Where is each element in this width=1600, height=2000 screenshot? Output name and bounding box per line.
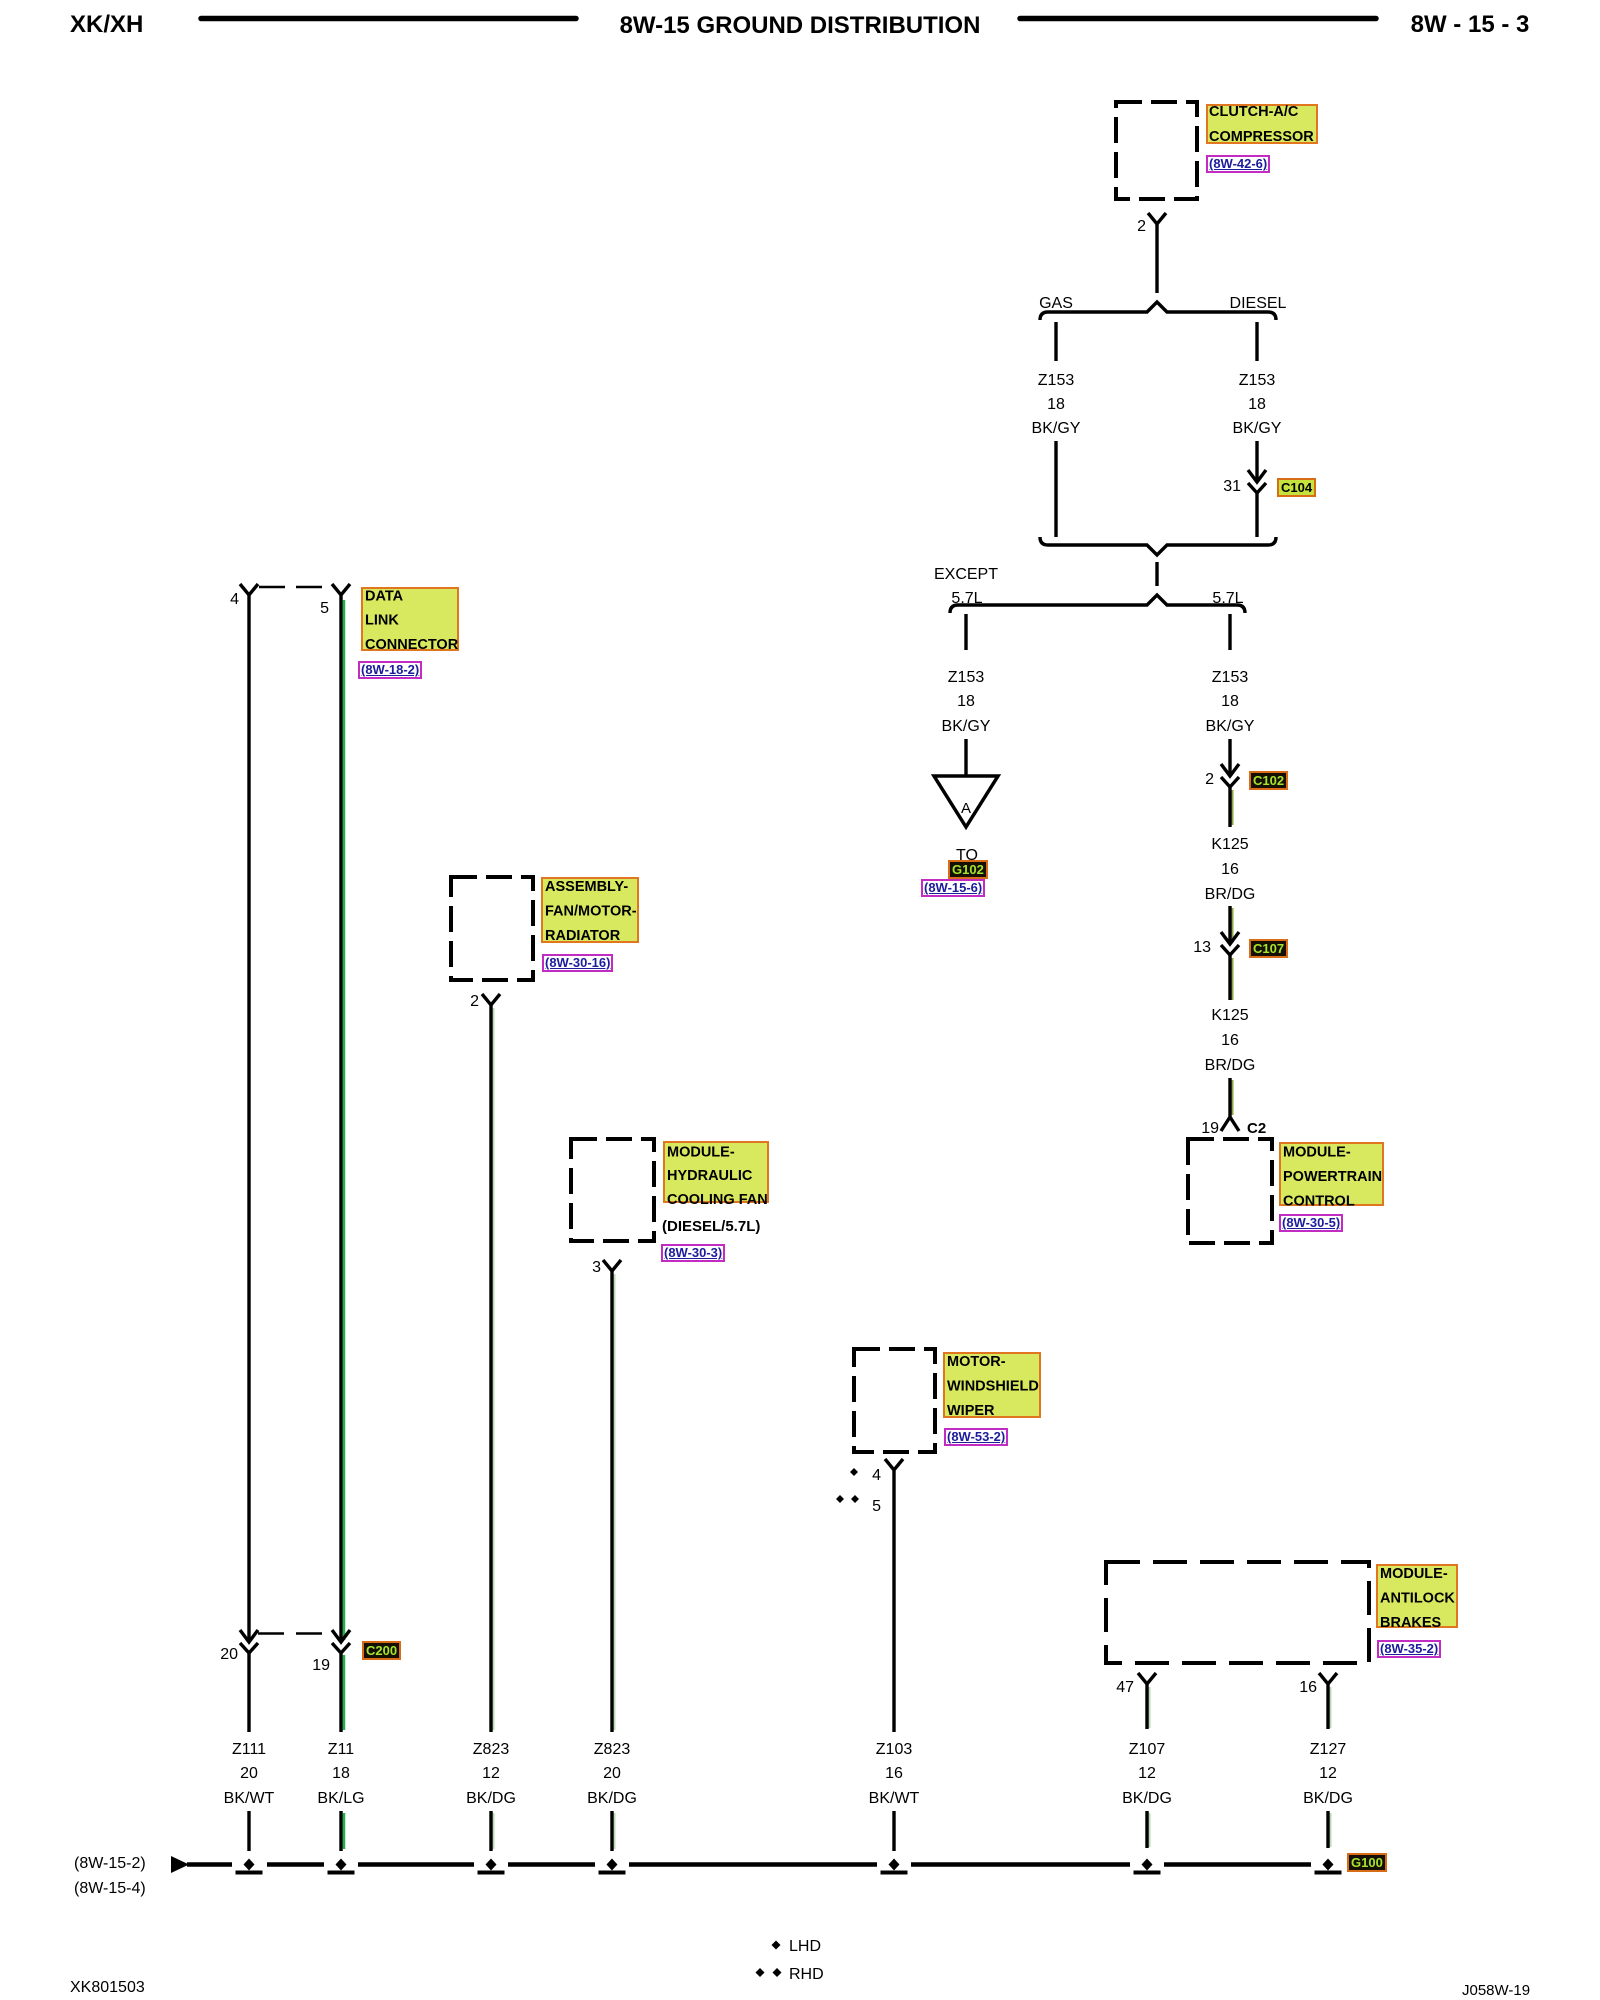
connector C200 pin 20 inline symbol xyxy=(240,1630,258,1642)
wire Z823 12 BK/DG from fan assembly xyxy=(493,1008,495,1730)
svg-text:Z153: Z153 xyxy=(1038,372,1075,389)
svg-text:RHD: RHD xyxy=(789,1966,824,1983)
svg-text:8W - 15 - 3: 8W - 15 - 3 xyxy=(1411,11,1530,38)
svg-text:GAS: GAS xyxy=(1039,295,1073,312)
reference link 8W-30-5 xyxy=(1279,1214,1343,1232)
svg-text:18: 18 xyxy=(1047,396,1065,413)
svg-text:WINDSHIELD: WINDSHIELD xyxy=(947,1379,1039,1395)
svg-text:XK/XH: XK/XH xyxy=(70,11,143,38)
svg-text:(8W-15-2): (8W-15-2) xyxy=(74,1855,146,1872)
note DIESEL/5.7L xyxy=(662,1218,760,1235)
component label DATA LINK CONNECTOR xyxy=(362,588,459,653)
svg-text:16: 16 xyxy=(1221,861,1239,878)
svg-text:LINK: LINK xyxy=(365,613,399,629)
wiper pin 4 (LHD) marker xyxy=(850,1468,858,1476)
svg-text:COOLING FAN: COOLING FAN xyxy=(667,1192,768,1208)
svg-text:POWERTRAIN: POWERTRAIN xyxy=(1283,1169,1382,1185)
svg-text:3: 3 xyxy=(592,1259,601,1276)
svg-text:BRAKES: BRAKES xyxy=(1380,1615,1442,1631)
wire Z111 from DLC pin 4 xyxy=(247,595,250,1642)
header rule right xyxy=(1020,16,1376,22)
svg-text:Z153: Z153 xyxy=(1212,669,1249,686)
svg-text:Z823: Z823 xyxy=(473,1741,510,1758)
svg-text:CONNECTOR: CONNECTOR xyxy=(365,637,459,653)
svg-text:BR/DG: BR/DG xyxy=(1205,886,1256,903)
svg-text:DATA: DATA xyxy=(365,589,404,605)
svg-text:BK/LG: BK/LG xyxy=(317,1790,364,1807)
reference link 8W-18-2 xyxy=(358,661,422,679)
svg-text:BK/GY: BK/GY xyxy=(1233,420,1282,437)
wiper pin 4 Y xyxy=(885,1459,903,1470)
splice junction Z11 to G100 xyxy=(336,1859,347,1871)
svg-text:18: 18 xyxy=(1248,396,1266,413)
svg-text:BK/DG: BK/DG xyxy=(1122,1790,1172,1807)
connector C104 pin 31 inline symbol xyxy=(1248,470,1266,482)
reference link 8W-30-3 xyxy=(661,1244,725,1262)
svg-text:18: 18 xyxy=(957,693,975,710)
connector label C102 xyxy=(1249,771,1288,790)
svg-text:20: 20 xyxy=(220,1646,238,1663)
svg-text:Z153: Z153 xyxy=(1239,372,1276,389)
svg-text:2: 2 xyxy=(1205,771,1214,788)
svg-text:XK801503: XK801503 xyxy=(70,1979,145,1996)
svg-text:MODULE-: MODULE- xyxy=(1380,1566,1448,1582)
svg-text:16: 16 xyxy=(1221,1032,1239,1049)
svg-text:2: 2 xyxy=(1137,218,1146,235)
wire K125 16 BR/DG below C107 xyxy=(1232,958,1234,1000)
svg-text:BK/WT: BK/WT xyxy=(224,1790,275,1807)
svg-text:K125: K125 xyxy=(1211,1007,1248,1024)
svg-text:18: 18 xyxy=(332,1765,350,1782)
svg-text:BR/DG: BR/DG xyxy=(1205,1057,1256,1074)
svg-text:12: 12 xyxy=(1138,1765,1156,1782)
svg-text:Z153: Z153 xyxy=(948,669,985,686)
fan assembly pin 2 Y xyxy=(482,994,500,1005)
wire Z153 18 BK/GY 5.7L branch xyxy=(1228,614,1231,650)
dashed link between C200 pins xyxy=(258,1632,332,1635)
component label CLUTCH-A/C COMPRESSOR xyxy=(1207,104,1317,145)
svg-text:47: 47 xyxy=(1116,1679,1134,1696)
wire below C104 xyxy=(1255,493,1258,537)
reference link 8W-30-16 xyxy=(542,954,613,972)
svg-text:MOTOR-: MOTOR- xyxy=(947,1354,1006,1370)
wiper pin 5 (RHD) markers xyxy=(836,1495,844,1503)
svg-text:MODULE-: MODULE- xyxy=(667,1145,735,1161)
svg-text:DIESEL: DIESEL xyxy=(1230,295,1287,312)
svg-text:K125: K125 xyxy=(1211,836,1248,853)
header rule left xyxy=(201,16,576,22)
connector C200 pin 19 inline symbol xyxy=(332,1630,350,1642)
svg-text:5.7L: 5.7L xyxy=(951,590,982,607)
data link connector pin 5 Y xyxy=(332,584,350,595)
ABS pin 16 Y xyxy=(1319,1673,1337,1684)
svg-text:16: 16 xyxy=(1299,1679,1317,1696)
wire Z153 from clutch pin 2 xyxy=(1155,224,1158,293)
svg-text:FAN/MOTOR-: FAN/MOTOR- xyxy=(545,904,637,920)
wire Z107 12 BK/DG from ABS pin 47 xyxy=(1149,1687,1151,1728)
svg-text:Z11: Z11 xyxy=(328,1741,354,1758)
svg-text:5: 5 xyxy=(872,1498,881,1515)
ground label G100 xyxy=(1347,1853,1387,1872)
svg-text:CONTROL: CONTROL xyxy=(1283,1194,1355,1210)
splice split GAS/DIESEL xyxy=(1040,302,1276,320)
pin 2 connector Y at clutch xyxy=(1148,213,1166,224)
svg-text:BK/DG: BK/DG xyxy=(1303,1790,1353,1807)
wire Z153 18 BK/GY diesel branch xyxy=(1255,322,1258,361)
component label MODULE-HYDRAULIC COOLING FAN xyxy=(664,1142,768,1208)
svg-text:BK/GY: BK/GY xyxy=(942,718,991,735)
wire Z127 12 BK/DG from ABS pin 16 xyxy=(1330,1687,1332,1728)
wire Z103 16 BK/WT from wiper motor xyxy=(892,1470,895,1732)
dashed link between DLC pins xyxy=(259,586,322,589)
data link connector pin 4 Y xyxy=(240,584,258,595)
svg-text:Z823: Z823 xyxy=(594,1741,631,1758)
svg-text:2: 2 xyxy=(470,993,479,1010)
svg-text:12: 12 xyxy=(1319,1765,1337,1782)
component label ASSEMBLY-FAN/MOTOR-RADIATOR xyxy=(542,878,638,944)
svg-text:16: 16 xyxy=(885,1765,903,1782)
component label MODULE-ANTILOCK BRAKES xyxy=(1377,1565,1457,1631)
connector label C104 xyxy=(1277,478,1316,497)
svg-text:Z127: Z127 xyxy=(1310,1741,1347,1758)
ground bus G100 wire segments xyxy=(187,1862,232,1867)
reference link 8W-15-6 xyxy=(921,879,985,897)
wire Z1 BK/LG from DLC pin 5 xyxy=(343,600,346,1640)
hydraulic cooling fan module box xyxy=(571,1139,654,1241)
svg-text:20: 20 xyxy=(603,1765,621,1782)
wire Z111 20 BK/WT below C200 xyxy=(247,1653,250,1732)
ABS pin 47 Y xyxy=(1138,1673,1156,1684)
ground bus arrow xyxy=(171,1856,189,1873)
wire Z823 20 BK/DG from hydraulic fan module xyxy=(614,1274,616,1730)
connector label C107 xyxy=(1249,939,1288,958)
connector C102 pin 2 inline symbol xyxy=(1221,764,1239,776)
svg-text:ASSEMBLY-: ASSEMBLY- xyxy=(545,879,628,895)
splice junction Z127 to G100 ground xyxy=(1323,1859,1334,1871)
svg-text:BK/DG: BK/DG xyxy=(466,1790,516,1807)
reference link 8W-42-6 xyxy=(1206,155,1270,173)
svg-text:CLUTCH-A/C: CLUTCH-A/C xyxy=(1209,104,1299,120)
clutch A/C compressor component box xyxy=(1116,102,1197,199)
svg-text:WIPER: WIPER xyxy=(947,1403,995,1419)
svg-text:MODULE-: MODULE- xyxy=(1283,1145,1351,1161)
svg-text:COMPRESSOR: COMPRESSOR xyxy=(1209,129,1314,145)
wire Z11 18 BK/LG below C200 xyxy=(343,1655,346,1730)
splice junction Z823-12 to G100 xyxy=(486,1859,497,1871)
svg-text:HYDRAULIC: HYDRAULIC xyxy=(667,1168,753,1184)
wire Z153 18 BK/GY except-5.7L branch xyxy=(964,614,967,650)
svg-text:A: A xyxy=(961,800,971,817)
reference link 8W-53-2 xyxy=(944,1428,1008,1446)
splice merge of gas/diesel branches xyxy=(1040,537,1276,555)
svg-text:31: 31 xyxy=(1223,478,1241,495)
component label MOTOR-WINDSHIELD WIPER xyxy=(944,1353,1040,1419)
svg-text:Z111: Z111 xyxy=(232,1741,266,1758)
svg-text:19: 19 xyxy=(312,1657,330,1674)
wire Z153 18 BK/GY gas branch xyxy=(1054,322,1057,361)
svg-text:4: 4 xyxy=(872,1467,881,1484)
svg-text:Z107: Z107 xyxy=(1129,1741,1166,1758)
connector label C2 xyxy=(1247,1120,1266,1137)
component label MODULE-POWERTRAIN CONTROL xyxy=(1280,1143,1383,1210)
splice junction Z111 to G100 xyxy=(244,1859,255,1871)
connector label C200 xyxy=(362,1641,401,1660)
svg-text:19: 19 xyxy=(1201,1120,1219,1137)
svg-text:BK/DG: BK/DG xyxy=(587,1790,637,1807)
splice junction Z107 to G100 xyxy=(1142,1859,1153,1871)
wire K125 16 BR/DG below C102 xyxy=(1232,790,1234,825)
radiator fan motor assembly box xyxy=(451,877,533,980)
powertrain control module box xyxy=(1188,1139,1272,1243)
wire between merge and 5.7L split xyxy=(1155,562,1158,586)
connector C107 pin 13 inline symbol xyxy=(1221,932,1239,944)
svg-text:5: 5 xyxy=(320,600,329,617)
svg-text:RADIATOR: RADIATOR xyxy=(545,928,621,944)
windshield wiper motor box xyxy=(854,1349,935,1452)
off-page symbol A to G102 xyxy=(934,776,998,827)
svg-text:Z103: Z103 xyxy=(876,1741,913,1758)
svg-text:BK/WT: BK/WT xyxy=(869,1790,920,1807)
svg-text:8W-15 GROUND DISTRIBUTION: 8W-15 GROUND DISTRIBUTION xyxy=(620,12,981,39)
reference link 8W-35-2 xyxy=(1377,1640,1441,1658)
svg-text:13: 13 xyxy=(1193,939,1211,956)
svg-text:EXCEPT: EXCEPT xyxy=(934,566,998,583)
ground label G102 xyxy=(948,860,988,879)
hydraulic fan pin 3 Y xyxy=(603,1260,621,1271)
svg-text:18: 18 xyxy=(1221,693,1239,710)
svg-text:12: 12 xyxy=(482,1765,500,1782)
svg-text:BK/GY: BK/GY xyxy=(1032,420,1081,437)
svg-text:LHD: LHD xyxy=(789,1938,821,1955)
svg-text:5.7L: 5.7L xyxy=(1212,590,1243,607)
svg-text:(8W-15-4): (8W-15-4) xyxy=(74,1880,146,1897)
svg-text:4: 4 xyxy=(230,591,239,608)
svg-text:ANTILOCK: ANTILOCK xyxy=(1380,1591,1455,1607)
legend LHD marker xyxy=(772,1941,781,1950)
legend RHD markers xyxy=(756,1968,765,1977)
splice junction Z823-20 to G100 xyxy=(607,1859,618,1871)
svg-text:J058W-19: J058W-19 xyxy=(1462,1982,1530,1999)
antilock brakes module box xyxy=(1106,1562,1369,1663)
svg-text:BK/GY: BK/GY xyxy=(1206,718,1255,735)
splice junction Z103 to G100 xyxy=(889,1859,900,1871)
splice split EXCEPT 5.7L / 5.7L xyxy=(950,595,1245,613)
svg-text:20: 20 xyxy=(240,1765,258,1782)
connector C2 pin 19 at PCM xyxy=(1221,1117,1239,1131)
